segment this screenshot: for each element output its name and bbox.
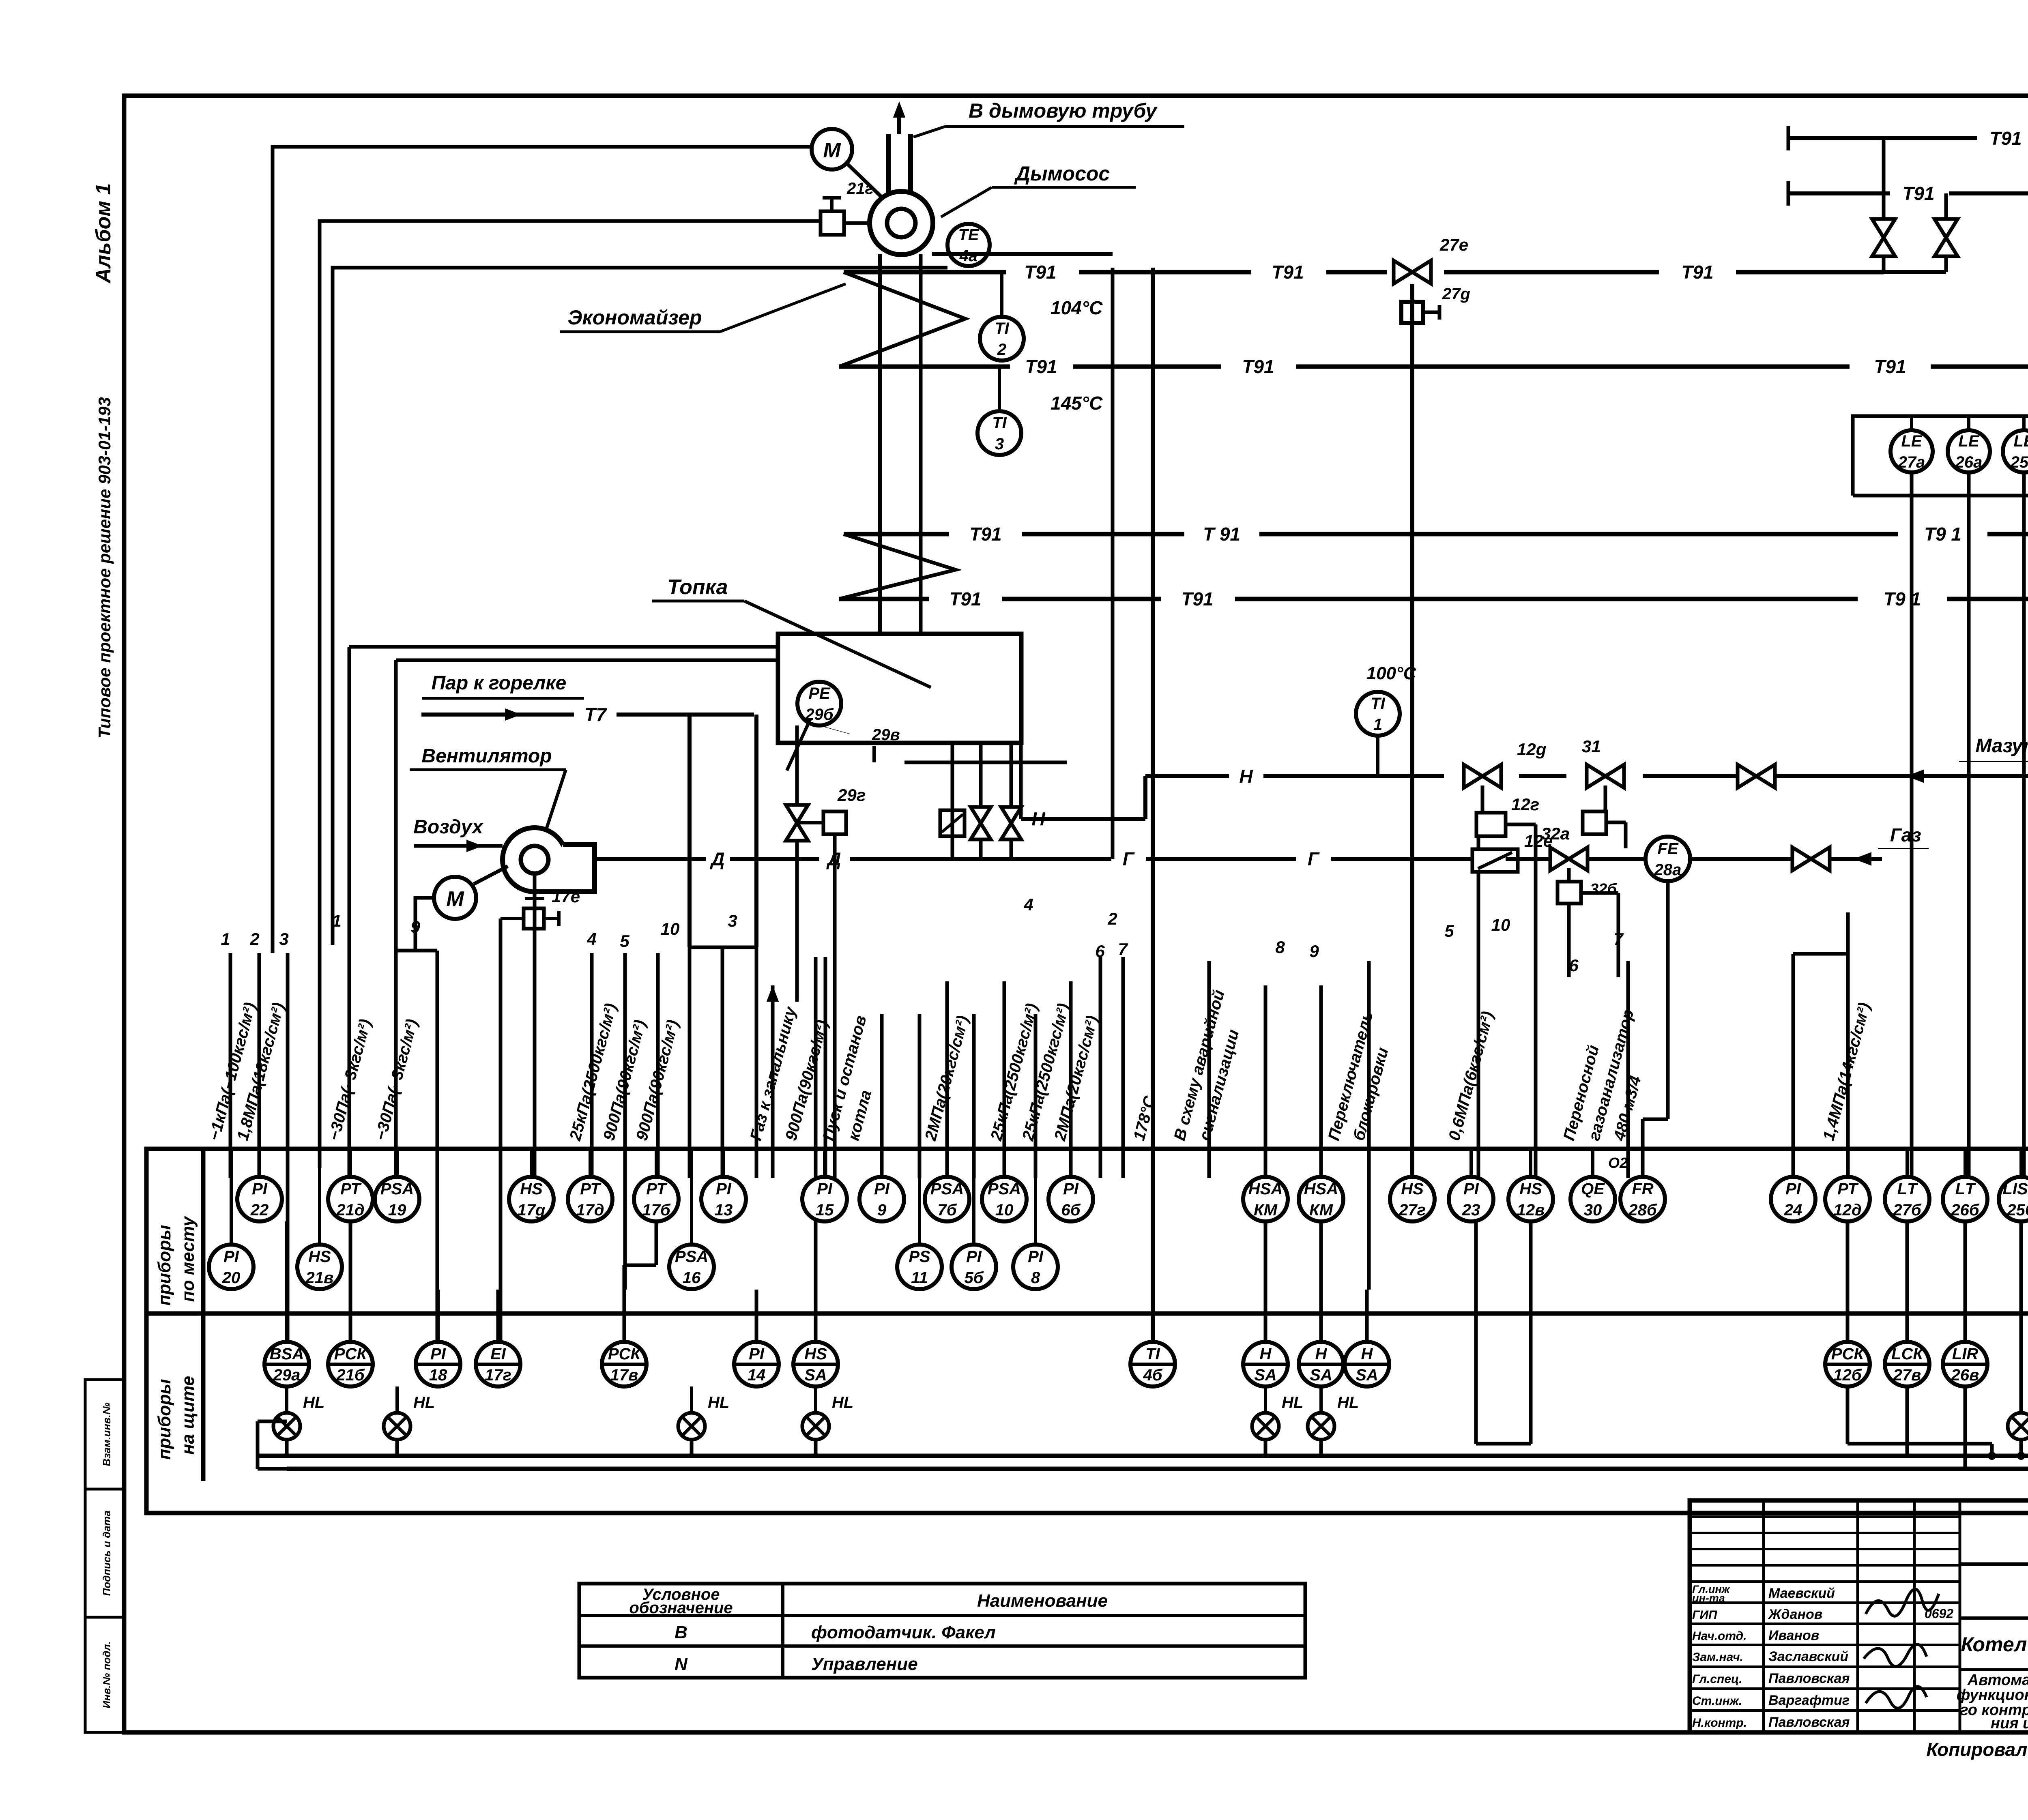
air duct Д segment 1: [595, 857, 706, 861]
drop to PI 22: [258, 953, 261, 1178]
svg-text:РI: РI: [223, 1248, 239, 1266]
svg-text:ТI: ТI: [992, 414, 1007, 432]
svg-text:РSА: РSА: [988, 1180, 1021, 1198]
stub to TI 3: [998, 367, 1001, 411]
svg-text:LТ: LТ: [1897, 1180, 1918, 1198]
svg-text:Маевский: Маевский: [1768, 1586, 1835, 1601]
drop to PT 17д: [590, 953, 594, 1178]
svg-text:12г: 12г: [1511, 795, 1539, 814]
jog to FR 28б: [1641, 1119, 1645, 1178]
svg-text:РSА: РSА: [380, 1180, 414, 1198]
svg-text:РI: РI: [430, 1345, 446, 1363]
svg-text:17в: 17в: [610, 1366, 638, 1384]
svg-text:Т91: Т91: [1902, 183, 1934, 204]
bus for lines 9: [396, 949, 437, 953]
svg-text:5: 5: [1444, 921, 1454, 940]
drop to PS 11: [918, 1014, 922, 1178]
arrow on ignition gas line: [767, 985, 779, 1002]
flue duct left wall: [878, 254, 882, 634]
ignition gas line down: [795, 841, 799, 1002]
motor M of smoke exhauster: [812, 129, 852, 170]
svg-text:22: 22: [250, 1201, 269, 1219]
burner feed at 2418: [979, 743, 983, 859]
instrument LE 27a: [1891, 430, 1933, 472]
instrument РI 8 (lower): [1013, 1245, 1058, 1289]
svg-text:5: 5: [620, 931, 629, 951]
svg-text:21г: 21г: [846, 180, 874, 197]
pipe line T91 #3 (drum upper): [844, 532, 949, 537]
svg-text:5б: 5б: [964, 1269, 984, 1287]
bus from T7 drops: [690, 946, 756, 949]
leader to fan: [941, 187, 992, 217]
lamp HL at 707: [273, 1394, 324, 1440]
svg-text:Т9 1: Т9 1: [1884, 588, 1921, 610]
svg-text:4: 4: [586, 929, 596, 949]
svg-text:10: 10: [1491, 915, 1510, 934]
svg-text:ТЕ: ТЕ: [958, 226, 979, 244]
svg-text:Газ: Газ: [1890, 824, 1921, 846]
svg-text:17д: 17д: [576, 1201, 604, 1219]
svg-text:9: 9: [1309, 942, 1319, 961]
svg-text:26б: 26б: [1951, 1201, 1979, 1219]
pipe T7 steam to burner: [421, 713, 574, 717]
vent fan body: [503, 828, 567, 892]
lamp HL at 3257: [1308, 1394, 1359, 1440]
instrument LТ 26б: [1943, 1177, 1987, 1221]
svg-text:17g: 17g: [518, 1201, 546, 1219]
svg-text:24: 24: [1784, 1201, 1802, 1219]
svg-text:21в: 21в: [305, 1269, 334, 1287]
panel instrument РСК 17в: [602, 1342, 647, 1386]
svg-text:НS: НS: [1519, 1180, 1542, 1198]
svg-text:обозначение: обозначение: [629, 1599, 733, 1617]
instrument НS 17g: [509, 1177, 554, 1221]
svg-text:РI: РI: [716, 1180, 732, 1198]
svg-text:РТ: РТ: [580, 1180, 602, 1198]
svg-text:18: 18: [429, 1366, 447, 1384]
svg-text:Зам.нач.: Зам.нач.: [1692, 1650, 1743, 1664]
gate valve B to header 2: [1934, 219, 1957, 256]
lamp HL at 979: [384, 1394, 435, 1440]
svg-text:Нач.отд.: Нач.отд.: [1692, 1629, 1747, 1643]
svg-text:9: 9: [877, 1201, 887, 1219]
local instruments row (по месту): [258, 1149, 261, 1177]
instrument TI 3 (145C): [977, 411, 1021, 455]
svg-text:НS: НS: [804, 1345, 827, 1363]
svg-text:Жданов: Жданов: [1768, 1607, 1822, 1622]
arrow to stack: [893, 101, 905, 118]
stub 7: [1121, 957, 1125, 1178]
margin stamp boxes: [85, 1380, 124, 1489]
lamp HL at 4983: [2008, 1394, 2028, 1440]
fan impeller: [887, 209, 915, 237]
actuator 17е: [524, 908, 544, 929]
svg-text:30: 30: [1584, 1201, 1602, 1219]
svg-text:НSА: НSА: [1248, 1180, 1283, 1198]
drop to PSA 10: [1003, 981, 1006, 1178]
instrument РТ 12д: [1825, 1177, 1870, 1221]
svg-text:29в: 29в: [872, 726, 900, 744]
svg-text:НSА: НSА: [1304, 1180, 1338, 1198]
wire 17е left: [501, 917, 524, 920]
svg-text:27в: 27в: [1893, 1366, 1921, 1384]
svg-text:27б: 27б: [1893, 1201, 1921, 1219]
drop from T7 line (a): [687, 715, 692, 947]
actuator box 12г: [1476, 813, 1506, 836]
indicator lamps HL: [285, 1386, 288, 1413]
svg-text:17г: 17г: [485, 1366, 511, 1384]
pipe line T91 #1 (steam to mains): [844, 270, 1006, 275]
svg-text:9: 9: [410, 917, 420, 936]
svg-text:3: 3: [995, 435, 1004, 453]
panel instrument Н SА: [1345, 1342, 1389, 1386]
band row divider: [146, 1311, 2028, 1316]
wire from box 31: [1606, 821, 1626, 824]
actuator 21г: [821, 211, 844, 235]
svg-text:HL: HL: [708, 1394, 729, 1412]
svg-text:27а: 27а: [1898, 453, 1925, 471]
svg-text:7: 7: [1613, 929, 1624, 949]
svg-text:РСК: РСК: [1831, 1345, 1865, 1363]
svg-text:27г: 27г: [1399, 1201, 1426, 1219]
check valve on gas line: [1792, 847, 1830, 870]
drop to PT 12д: [1846, 912, 1850, 1178]
svg-text:РI: РI: [252, 1180, 268, 1198]
svg-text:FR: FR: [1632, 1180, 1653, 1198]
svg-text:РСК: РСК: [608, 1345, 642, 1363]
panel instrument РСК 21б: [328, 1342, 373, 1386]
svg-text:Экономайзер: Экономайзер: [567, 306, 702, 329]
legend table: [579, 1584, 1305, 1678]
svg-text:1: 1: [221, 929, 230, 949]
svg-text:16: 16: [683, 1269, 701, 1287]
svg-text:фотодатчик. Факел: фотодатчик. Факел: [811, 1623, 996, 1642]
svg-text:РI: РI: [1785, 1180, 1801, 1198]
actuator box of valve 31: [1583, 811, 1606, 834]
svg-text:12б: 12б: [1833, 1366, 1862, 1384]
panel instruments row (на щите): [285, 1313, 288, 1342]
stub 29в: [872, 746, 876, 762]
wire down (7): [1617, 893, 1620, 977]
stub 6: [1099, 957, 1102, 1178]
svg-text:ТI: ТI: [1145, 1345, 1160, 1363]
panel instrument РСК 12б: [1825, 1342, 1870, 1386]
svg-text:Инв.№ подл.: Инв.№ подл.: [101, 1641, 113, 1708]
flow regulator 12е on gas line: [1472, 849, 1518, 872]
svg-text:Котел ДЕ-6,5-14 ГМ: Котел ДЕ-6,5-14 ГМ: [1961, 1633, 2028, 1656]
line PE to valve 29г: [795, 725, 799, 804]
burner feed at 2493: [1010, 743, 1013, 859]
instrument РТ 17б: [634, 1177, 679, 1221]
svg-text:28а: 28а: [1654, 861, 1682, 879]
svg-text:LIR: LIR: [1952, 1345, 1979, 1363]
panel instrument РI 18: [416, 1342, 460, 1386]
svg-text:Павловская: Павловская: [1768, 1671, 1850, 1686]
instrument LE 25a: [2003, 430, 2028, 472]
svg-text:ЕI: ЕI: [490, 1345, 506, 1363]
svg-text:Н: Н: [1239, 766, 1253, 787]
gas line Г: [1506, 857, 1550, 861]
drop to PT 21д: [348, 647, 351, 1178]
svg-text:НS: НS: [308, 1248, 331, 1266]
svg-text:ГИП: ГИП: [1692, 1608, 1718, 1622]
leader to vent fan: [546, 770, 566, 829]
svg-text:Т91: Т91: [1989, 128, 2022, 149]
svg-text:Т91: Т91: [1272, 262, 1304, 283]
svg-text:FЕ: FЕ: [1657, 840, 1678, 858]
svg-text:РТ: РТ: [340, 1180, 362, 1198]
svg-text:25б: 25б: [2007, 1201, 2028, 1219]
lamp HL at 3120: [1252, 1394, 1303, 1440]
svg-text:Дымосос: Дымосос: [1014, 162, 1110, 185]
svg-text:4б: 4б: [1143, 1366, 1162, 1384]
drop to HS SA: [814, 957, 818, 1149]
svg-text:2: 2: [1107, 909, 1117, 928]
burner feed at 2348: [951, 743, 954, 859]
svg-text:Т91: Т91: [1681, 262, 1713, 283]
svg-text:ин-та: ин-та: [1692, 1592, 1725, 1604]
svg-text:О2: О2: [1608, 1155, 1628, 1171]
svg-text:ТI: ТI: [1371, 695, 1385, 713]
svg-text:Копировал: Моисеева: Копировал: Моисеева: [1926, 1739, 2028, 1760]
svg-text:Вентилятор: Вентилятор: [421, 745, 552, 767]
svg-text:20: 20: [222, 1269, 241, 1287]
svg-text:1: 1: [1373, 716, 1382, 734]
svg-text:6б: 6б: [1061, 1201, 1081, 1219]
wire motor M to fan: [848, 164, 884, 200]
valve 12g on mazut line: [1464, 764, 1501, 788]
wire 32б right: [1581, 891, 1618, 895]
svg-text:19: 19: [388, 1201, 406, 1219]
svg-text:Н: Н: [1361, 1345, 1373, 1363]
instrument НSА КМ: [1299, 1177, 1343, 1221]
svg-text:РI: РI: [749, 1345, 765, 1363]
feeder H SA through band: [1367, 1149, 1371, 1290]
svg-text:21д: 21д: [336, 1201, 364, 1219]
svg-text:КМ: КМ: [1254, 1201, 1278, 1219]
instrument РТ 17д: [568, 1177, 612, 1221]
svg-text:32б: 32б: [1590, 881, 1617, 898]
svg-text:LЕ: LЕ: [1901, 432, 1922, 450]
stem valve B: [1944, 193, 1948, 219]
flow regulator at burner: [940, 810, 965, 836]
signal line LE25a down to LISA 25б: [2022, 472, 2026, 1178]
svg-text:LISА: LISА: [2002, 1180, 2028, 1198]
drop to PT 17б: [656, 953, 660, 1178]
svg-text:Г: Г: [1308, 848, 1320, 869]
drop to PI 14: [755, 947, 758, 1178]
smoke exhauster fan body: [870, 191, 933, 255]
svg-text:100°С: 100°С: [1366, 663, 1417, 683]
instrument НS 27г: [1390, 1177, 1435, 1221]
burner valve 2: [1001, 807, 1021, 839]
svg-text:12g: 12g: [1517, 740, 1546, 759]
instrument РS 11 (lower): [897, 1245, 942, 1289]
svg-text:РI: РI: [1063, 1180, 1079, 1198]
svg-text:РS: РS: [909, 1248, 930, 1266]
svg-text:12д: 12д: [1833, 1201, 1861, 1219]
wire: damper actuator 21g loop: [320, 221, 819, 1168]
svg-text:29а: 29а: [273, 1366, 301, 1384]
flow element FE 28a: [1646, 837, 1690, 881]
svg-text:М: М: [823, 139, 841, 162]
stem 32а to 32б: [1567, 868, 1571, 882]
svg-text:HL: HL: [303, 1394, 324, 1412]
svg-text:32а: 32а: [1541, 824, 1570, 843]
air inlet line: [414, 844, 503, 848]
FE 28а signal down: [1666, 881, 1670, 1119]
actuator of valve 29г: [823, 811, 846, 834]
svg-text:В дымовую трубу: В дымовую трубу: [969, 99, 1158, 122]
svg-text:Г: Г: [1123, 848, 1135, 869]
instrument НS 12в: [1508, 1177, 1553, 1221]
svg-text:HL: HL: [1282, 1394, 1303, 1412]
drop to PI 13: [721, 947, 724, 1178]
svg-text:Воздух: Воздух: [413, 816, 484, 838]
instrument НS 21в (lower): [297, 1245, 342, 1289]
wire 12г right: [1506, 823, 1536, 826]
valve 32а on gas line: [1550, 847, 1588, 870]
drop to PI 24: [1792, 954, 1795, 1178]
burner valve 1: [971, 807, 991, 839]
svg-text:15: 15: [816, 1201, 834, 1219]
svg-text:26в: 26в: [1951, 1366, 1979, 1384]
panel instrument ВSА 29а: [264, 1342, 309, 1386]
drop to PI 18: [436, 951, 439, 1342]
svg-text:HL: HL: [1337, 1394, 1359, 1412]
instrument РI 13: [701, 1177, 746, 1221]
instrument РI 15: [802, 1177, 847, 1221]
wire 12г down to PI 23: [1477, 836, 1480, 1178]
bus PI24/PT12д: [1793, 952, 1848, 956]
svg-text:SА: SА: [1356, 1366, 1378, 1384]
svg-text:РI: РI: [1028, 1248, 1044, 1266]
svg-text:РI: РI: [1463, 1180, 1479, 1198]
panel instrument LIR 26в: [1943, 1342, 1987, 1386]
lamp HL at 2011: [802, 1394, 853, 1440]
fan outlet to downcomer: [932, 252, 1113, 256]
band label column divider: [201, 1149, 206, 1481]
wire 32б down (6): [1567, 904, 1571, 977]
feeder BSA 29а through band: [286, 1149, 290, 1342]
svg-text:7: 7: [1118, 940, 1128, 959]
instrument РSА 10: [982, 1177, 1027, 1221]
stem / signal line 27g down to NS 27г: [1410, 284, 1414, 1178]
svg-text:Заславский: Заславский: [1768, 1649, 1848, 1664]
svg-text:РI: РI: [817, 1180, 833, 1198]
instrument РSА 19: [375, 1177, 419, 1221]
svg-text:Д: Д: [826, 848, 841, 869]
svg-text:РСК: РСК: [334, 1345, 368, 1363]
svg-text:145°С: 145°С: [1051, 393, 1103, 414]
svg-text:Подпись и дата: Подпись и дата: [101, 1511, 113, 1596]
svg-text:РSА: РSА: [930, 1180, 964, 1198]
svg-text:КМ: КМ: [1309, 1201, 1334, 1219]
instrument TI 2 (104C): [980, 317, 1024, 361]
svg-text:Наименование: Наименование: [977, 1591, 1108, 1611]
drop to PI 8: [1034, 1014, 1038, 1178]
svg-text:Мазут: Мазут: [1975, 735, 2028, 757]
svg-text:РSА: РSА: [675, 1248, 708, 1266]
level sensors LE box: [1853, 416, 2028, 496]
svg-text:26а: 26а: [1955, 453, 1983, 471]
pipe line T91 #2: [839, 365, 1010, 369]
svg-text:11: 11: [911, 1269, 928, 1287]
furnace wire a horizontal: [349, 645, 778, 649]
valve 27е on T91 line: [1394, 260, 1431, 283]
svg-text:8: 8: [1031, 1269, 1040, 1287]
wire: smoke-exhauster motor control loop: [273, 147, 812, 953]
svg-text:104°С: 104°С: [1051, 297, 1103, 318]
check valve on mazut line: [1738, 764, 1775, 788]
stack line up: [897, 106, 901, 134]
stub to TI 2: [1000, 272, 1003, 316]
svg-text:Ст.инж.: Ст.инж.: [1692, 1694, 1742, 1708]
svg-text:27е: 27е: [1439, 235, 1468, 254]
leader PE to 29г: [787, 719, 810, 770]
burner manifold: [904, 761, 1067, 764]
drop to PCK 17в: [623, 953, 627, 1290]
svg-text:Д: Д: [709, 848, 724, 869]
svg-text:ТI: ТI: [995, 320, 1009, 337]
instrument РI 9: [859, 1177, 904, 1221]
instrument LE 26a: [1948, 430, 1990, 472]
svg-text:Н: Н: [1260, 1345, 1272, 1363]
wire motor to vent fan: [474, 866, 508, 884]
svg-text:N: N: [675, 1654, 688, 1674]
instrument РI 23: [1449, 1177, 1493, 1221]
svg-text:3: 3: [279, 929, 288, 949]
svg-text:ния и управления.: ния и управления.: [1991, 1715, 2028, 1732]
drop to PI 15: [824, 957, 827, 1178]
motor M of vent fan: [434, 877, 476, 919]
svg-text:6: 6: [1095, 942, 1105, 961]
HL bus 2: [287, 1467, 2028, 1471]
svg-text:Автоматизация. Схема: Автоматизация. Схема: [1967, 1672, 2028, 1689]
mazut flow arrow: [1906, 769, 1924, 783]
svg-text:3: 3: [728, 911, 737, 930]
instrument LISА 25б: [1999, 1177, 2028, 1221]
actuator box 27g: [1401, 302, 1423, 323]
drop to NS 12в: [1534, 824, 1538, 1178]
panel instrument LСК 27в: [1885, 1342, 1929, 1386]
svg-text:12в: 12в: [1517, 1201, 1545, 1219]
svg-text:Иванов: Иванов: [1768, 1628, 1819, 1643]
panel instrument НS SА: [793, 1342, 838, 1386]
drop to PI 6б: [1069, 981, 1073, 1178]
svg-text:на щите: на щите: [178, 1376, 198, 1455]
svg-text:Взам.инв.№: Взам.инв.№: [101, 1402, 113, 1466]
panel instrument ТI 4б: [1130, 1342, 1175, 1386]
svg-text:SА: SА: [1254, 1366, 1277, 1384]
panel instrument РI 14: [734, 1342, 779, 1386]
wire motor M to bus: [415, 898, 434, 951]
panel instrument Н SА: [1299, 1342, 1343, 1386]
signatures (squiggles): [1866, 1589, 1939, 1616]
svg-text:QЕ: QЕ: [1581, 1180, 1605, 1198]
svg-text:10: 10: [995, 1201, 1014, 1219]
divider under ТПР row: [1960, 1562, 2028, 1566]
svg-text:25а: 25а: [2010, 453, 2028, 471]
stem 31 to box: [1604, 786, 1607, 811]
gas duct downcomer right / line to TI 4b: [1151, 268, 1155, 1342]
instrument РI 24: [1771, 1177, 1815, 1221]
title block: [1690, 1500, 2028, 1732]
drop to H SA (interlock selector): [1367, 961, 1371, 1149]
svg-text:SА: SА: [804, 1366, 827, 1384]
drop to NSA КМ (2): [1319, 985, 1323, 1178]
valve 29г (ignition gas): [786, 805, 808, 841]
